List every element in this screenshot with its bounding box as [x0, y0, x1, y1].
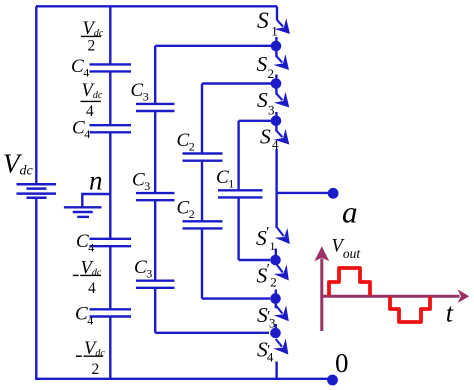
- wire: top horizontal bus: [36, 5, 277, 7]
- svg-text:4: 4: [87, 313, 93, 327]
- junction S2'-S3': [275, 290, 277, 299]
- svg-text:4: 4: [267, 350, 274, 365]
- capacitor C4 (second): [90, 125, 132, 132]
- label +Vdc/4: [81, 81, 103, 120]
- capacitor C2 (bottom): [183, 221, 223, 228]
- svg-text:4: 4: [88, 280, 96, 297]
- svg-text:C: C: [75, 304, 88, 325]
- wire: C1 top to junction S3-S4: [239, 120, 271, 122]
- svg-text:3: 3: [143, 90, 149, 104]
- wire: S4' to bottom bus: [275, 362, 277, 379]
- svg-text:3: 3: [268, 103, 275, 118]
- svg-text:C: C: [131, 80, 144, 101]
- switch S3': [257, 303, 289, 331]
- wire: C1 column vertical segments: [237, 121, 239, 260]
- switch S1: [257, 6, 290, 38]
- svg-text:2: 2: [268, 66, 275, 81]
- wire: C3 column vertical segments: [154, 46, 156, 333]
- svg-text:C: C: [177, 198, 190, 219]
- svg-text:C: C: [76, 231, 89, 252]
- svg-text:C: C: [216, 167, 229, 188]
- junction S1'-S2': [275, 249, 277, 261]
- wire: left vertical (source branch upper): [35, 6, 37, 184]
- battery Vdc: [17, 184, 57, 198]
- capacitor C4 (top, +Vdc/2 tap): [90, 64, 132, 71]
- capacitor C3 (bottom): [136, 281, 175, 288]
- svg-text:2: 2: [92, 361, 100, 378]
- wire: C3 top to junction S1-S2: [155, 45, 271, 47]
- node 0 terminal: [327, 375, 338, 386]
- svg-text:C: C: [71, 56, 84, 77]
- junction S1-S2: [275, 37, 277, 46]
- capacitor C2 (top): [183, 154, 223, 161]
- wire: main dc bus vertical segments: [109, 6, 111, 379]
- svg-text:2: 2: [189, 140, 195, 154]
- svg-text:S: S: [260, 125, 271, 149]
- capacitor C4 (third): [90, 239, 132, 246]
- wire: C3 bottom to junction S3'-S4': [155, 332, 269, 334]
- svg-text:4: 4: [86, 103, 94, 120]
- svg-text:4: 4: [83, 66, 89, 80]
- svg-text:a: a: [342, 195, 358, 230]
- label -Vdc/2: [76, 339, 105, 378]
- svg-text:1: 1: [228, 177, 234, 191]
- svg-text:3: 3: [144, 179, 150, 193]
- capacitor C3 (middle): [136, 193, 175, 200]
- ground: [64, 207, 102, 217]
- waveform negative half: [390, 297, 430, 323]
- svg-text:C: C: [134, 257, 147, 278]
- wire: C2 column vertical segments: [201, 84, 203, 299]
- svg-text:2: 2: [88, 38, 96, 55]
- svg-text:4: 4: [84, 127, 90, 141]
- svg-text:2: 2: [189, 207, 195, 221]
- wire: neutral tap to ground: [82, 194, 110, 207]
- node a terminal: [328, 188, 339, 199]
- switch S3: [257, 88, 289, 118]
- svg-text:n: n: [89, 165, 103, 195]
- svg-text:S: S: [257, 52, 268, 76]
- switch S4': [257, 337, 288, 364]
- svg-text:C: C: [132, 170, 145, 191]
- wire: bottom horizontal to node 0: [35, 378, 331, 380]
- waveform positive half: [329, 268, 370, 296]
- svg-text:2: 2: [270, 275, 277, 290]
- capacitor C3 (top): [136, 104, 175, 111]
- svg-text:1: 1: [271, 24, 278, 39]
- axis horizontal t: [320, 295, 459, 298]
- wire: S4 to output node a: [275, 149, 277, 193]
- axis vertical Vout: [320, 259, 323, 332]
- svg-text:C: C: [72, 117, 85, 138]
- junction S3-S4: [275, 112, 277, 121]
- svg-text:t: t: [446, 299, 454, 328]
- switch S2: [257, 50, 290, 81]
- switch S4: [260, 125, 289, 153]
- switch S2': [257, 262, 289, 290]
- svg-text:C: C: [177, 130, 190, 151]
- junction S3'-S4': [275, 324, 277, 333]
- svg-text:S: S: [257, 8, 269, 34]
- wire: C2 bottom to junction S2'-S3': [202, 297, 270, 299]
- switch S1': [256, 193, 290, 253]
- wire: C1 bottom to junction S1'-S2': [239, 259, 270, 261]
- svg-text:3: 3: [146, 267, 152, 281]
- capacitor C1: [218, 190, 263, 197]
- label +Vdc/2: [81, 19, 104, 55]
- label -Vdc/4: [73, 258, 102, 297]
- junction S2-S3: [275, 75, 277, 84]
- capacitor C4 (bottom): [90, 309, 132, 316]
- svg-text:4: 4: [88, 241, 94, 255]
- svg-text:0: 0: [335, 348, 349, 378]
- wire: left vertical (source branch lower): [35, 199, 37, 379]
- wire: C2 top to junction S2-S3: [202, 82, 271, 84]
- svg-text:S: S: [257, 88, 268, 112]
